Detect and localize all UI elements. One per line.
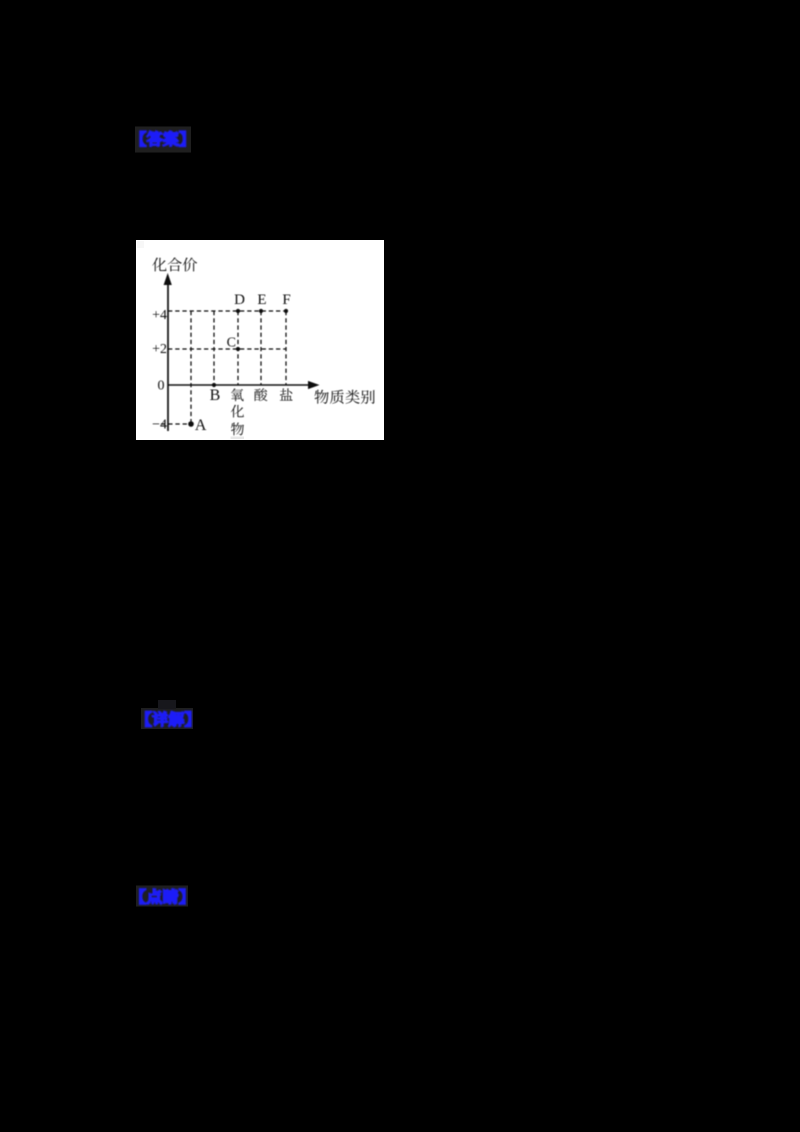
dashed vertical line column B (213, 311, 215, 385)
point B (212, 383, 216, 387)
svg-text:F: F (282, 292, 290, 308)
y-axis title 化合价 (152, 257, 197, 271)
point D (236, 309, 240, 313)
smudge above label 2 (158, 700, 176, 709)
category label oxide (vertical 氧化物) (231, 388, 244, 435)
dashed vertical line salt column (285, 311, 287, 385)
svg-text:E: E (257, 292, 266, 308)
svg-text:A: A (195, 417, 207, 434)
tick labels +4 +2 0 -4 (152, 308, 167, 433)
svg-text:+4: +4 (152, 308, 167, 323)
svg-text:0: 0 (158, 379, 165, 394)
point letter labels (195, 292, 291, 434)
dashed horizontal line +4 (168, 310, 286, 312)
point F (284, 309, 288, 313)
x-axis (168, 384, 313, 386)
x-axis arrowhead (308, 381, 320, 389)
point A (188, 421, 194, 427)
category label salt 盐 (280, 388, 293, 400)
y-axis (167, 277, 169, 431)
answer label 3: 【点睛】 (140, 889, 185, 904)
grey strip under vertical label (231, 437, 245, 440)
point E (259, 309, 263, 313)
svg-text:+2: +2 (152, 342, 167, 357)
chart image white background (136, 240, 384, 440)
answer label halo 2 (141, 708, 193, 729)
svg-text:C: C (227, 335, 236, 350)
answer label 1: 【答案】 (140, 131, 185, 146)
dashed vertical line oxide column (237, 311, 239, 385)
dashed vertical line column A (190, 311, 192, 424)
dashed vertical line acid column (260, 311, 262, 385)
category label acid 酸 (254, 388, 267, 401)
answer label halo 1 (135, 127, 191, 153)
chart corner artifact (137, 241, 144, 248)
answer label halo 3 (136, 886, 188, 907)
x-axis title 物质类别 (315, 390, 375, 404)
dashed horizontal line -4 (161, 423, 191, 425)
svg-text:D: D (234, 292, 245, 308)
svg-text:B: B (210, 387, 221, 404)
answer label 2: 【详解】 (146, 712, 191, 727)
dashed horizontal line +2 (168, 348, 286, 350)
point C (236, 347, 240, 351)
y-axis arrowhead (164, 273, 172, 285)
svg-text:−4: −4 (152, 417, 167, 432)
